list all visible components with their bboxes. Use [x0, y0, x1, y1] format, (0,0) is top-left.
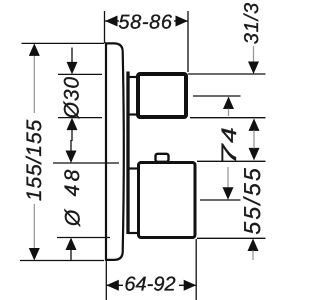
large knob tab button — [156, 154, 169, 162]
svg-text:55/55: 55/55 — [239, 166, 265, 235]
dimension Ø30 (left, outside arrows) — [61, 48, 84, 142]
dimension 31/3 (top right, outside arrows) — [223, 2, 263, 116]
dimension 155/155 (left) — [23, 43, 46, 260]
large knob neck — [128, 167, 140, 169]
svg-text:31/3: 31/3 — [241, 2, 263, 44]
large knob body — [139, 163, 196, 238]
small knob neck — [128, 76, 139, 78]
escutcheon plate (side view) — [106, 43, 124, 260]
svg-text:Ø30: Ø30 — [61, 76, 84, 119]
svg-text:48: 48 — [61, 166, 84, 196]
svg-text:4: 4 — [218, 127, 241, 143]
svg-text:7: 7 — [218, 142, 241, 165]
extension lines, black thin — [20, 11, 266, 300]
dimension 64-92 (bottom) — [106, 274, 196, 296]
dimension 74 (right, inside arrows) — [218, 118, 260, 165]
verticals — [104, 11, 106, 43]
svg-text:64-92: 64-92 — [124, 274, 175, 296]
dimension 55/55 (bottom right, outside arrows) — [223, 166, 266, 260]
svg-text:155/155: 155/155 — [23, 119, 46, 201]
svg-text:58-86: 58-86 — [118, 12, 172, 34]
svg-text:Ø: Ø — [62, 208, 85, 227]
right side — [188, 73, 266, 75]
left side — [22, 42, 105, 44]
dimension Ø 48 (left, outside arrows) — [61, 140, 85, 261]
small knob body — [138, 74, 186, 117]
sleeve edge — [126, 72, 129, 235]
dimension 58-86 (top) — [105, 12, 188, 34]
